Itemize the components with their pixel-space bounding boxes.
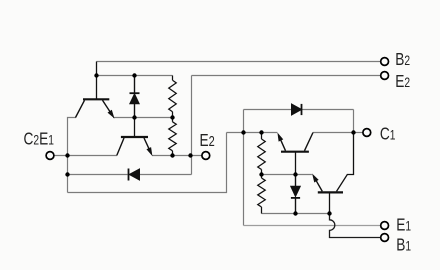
- node dot C2E1 junction: [65, 153, 69, 157]
- svg-text:B2: B2: [395, 50, 410, 69]
- terminal B2: [381, 58, 389, 66]
- resistor R4: [258, 175, 266, 214]
- node dot diode row junction: [65, 172, 69, 176]
- node dot R3 top: [259, 130, 263, 134]
- wire Q3 base row: [262, 174, 312, 176]
- node dot Q3 base junction: [293, 172, 297, 176]
- wire E1 kelvin drop: [243, 110, 245, 226]
- label C2E1: [24, 130, 55, 149]
- node dot C1: [351, 130, 355, 134]
- svg-text:E2: E2: [395, 72, 410, 91]
- resistor R3: [258, 133, 266, 175]
- wire C1 rail drop: [353, 110, 355, 133]
- node dot R2 bottom: [170, 153, 174, 157]
- diode D1 speed-up: [130, 76, 140, 118]
- node dot E2 riser junction: [188, 153, 192, 157]
- wire Q3 collector to C1: [313, 132, 354, 134]
- svg-text:E2: E2: [200, 131, 215, 150]
- node dot D2 bottom: [293, 211, 297, 215]
- terminal C1: [363, 129, 371, 137]
- terminal B1: [381, 234, 389, 242]
- wire E2 riser: [191, 76, 193, 175]
- wire Q2 emitter to E2 terminal: [152, 155, 202, 157]
- wire B2 long line: [97, 61, 381, 63]
- wire top diode rail: [244, 109, 354, 111]
- wire base rail left: [97, 75, 173, 77]
- svg-text:C2E1: C2E1: [24, 130, 55, 149]
- wire C2E1 to Q2 collector: [54, 155, 117, 157]
- transistor Q1 driver left: [76, 62, 114, 118]
- svg-text:C1: C1: [380, 125, 396, 144]
- resistor R1: [169, 76, 177, 118]
- transistor Q4 driver right: [313, 133, 354, 214]
- wire Q1 collector to C2E1 rail: [68, 118, 77, 193]
- wire Q1 emitter to R junction: [113, 117, 173, 119]
- terminal E2 right: [381, 72, 389, 80]
- label B2: [395, 50, 410, 69]
- resistor R2: [169, 118, 177, 156]
- node dot R1 R2 junction: [170, 115, 174, 119]
- label B1: [396, 236, 411, 255]
- wire E2 long line: [192, 75, 381, 77]
- node dot Q1 base: [94, 73, 98, 77]
- node dot Q4 base junction: [327, 211, 331, 215]
- label E2 left: [200, 131, 215, 150]
- svg-text:B1: B1: [396, 236, 411, 255]
- label E1: [396, 216, 411, 235]
- node dot E1 rail junction: [241, 130, 245, 134]
- diode D2 right unit: [291, 175, 301, 214]
- terminal E1: [381, 222, 389, 230]
- wire E1 rail: [227, 132, 278, 134]
- label C1: [380, 125, 396, 144]
- terminal E2 left: [202, 152, 210, 160]
- node dot R3 R4 junction: [259, 172, 263, 176]
- transistor Q3 output right: [278, 133, 313, 175]
- terminal C2E1: [46, 152, 54, 160]
- wire B1 with hop over E1: [330, 214, 381, 238]
- svg-text:E1: E1: [396, 216, 411, 235]
- node dot D1 top: [132, 73, 136, 77]
- wire C1 stub: [354, 132, 363, 134]
- wire freewheel diode D4 row: [68, 174, 192, 176]
- node dot D1 bottom: [132, 115, 136, 119]
- wire E1 terminal line: [244, 225, 381, 227]
- label E2 right: [395, 72, 410, 91]
- wire bottom link C2E1 to right unit: [68, 133, 227, 193]
- diode D4 freewheel left: [129, 169, 140, 181]
- transistor Q2 output left: [117, 118, 152, 156]
- diode D3 freewheel right: [292, 104, 302, 115]
- wire bottom row right unit: [262, 213, 330, 215]
